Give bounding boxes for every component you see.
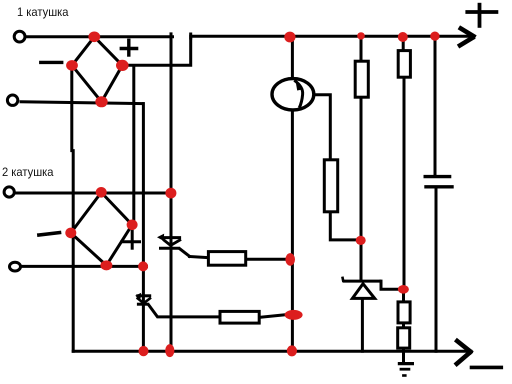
svg-text:1 катушка: 1 катушка	[17, 5, 69, 19]
svg-text:2 катушка: 2 катушка	[2, 165, 54, 179]
